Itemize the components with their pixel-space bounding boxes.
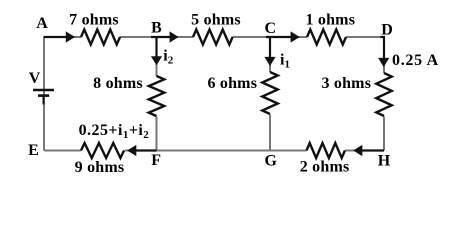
svg-text:9 ohms: 9 ohms — [75, 159, 125, 176]
battery V1 short plate — [38, 94, 49, 97]
value label 2 ohms — [300, 158, 350, 175]
node C label — [265, 20, 277, 37]
current arrow toward 9 ohms (left, at F) — [127, 145, 156, 156]
svg-text:7 ohms: 7 ohms — [69, 12, 119, 29]
svg-text:F: F — [151, 152, 161, 169]
resistor R6 3 ohms (vertical D-H) — [376, 73, 392, 116]
svg-text:i2: i2 — [163, 47, 173, 66]
battery V1 long plate — [33, 89, 54, 92]
value label 5 ohms — [191, 12, 241, 29]
svg-text:3 ohms: 3 ohms — [321, 75, 371, 92]
current label i1 — [280, 52, 290, 71]
svg-text:H: H — [378, 153, 391, 170]
resistor R3 1 ohms — [307, 30, 346, 45]
value label 8 ohms — [93, 75, 143, 92]
svg-text:2 ohms: 2 ohms — [300, 158, 350, 175]
wire bottom E-H — [44, 150, 384, 152]
resistor R5 6 ohms (vertical C-G) — [262, 72, 278, 114]
node G label — [264, 153, 277, 170]
node V label (source) — [29, 70, 41, 87]
svg-text:G: G — [264, 153, 277, 170]
value label 7 ohms — [69, 12, 119, 29]
svg-text:0.25+i1+i2: 0.25+i1+i2 — [79, 122, 150, 141]
svg-text:B: B — [151, 20, 162, 37]
node F label — [151, 152, 161, 169]
current arrow toward 2 ohms (left, at H) — [353, 145, 384, 156]
value label 1 ohms — [305, 12, 355, 29]
value label 9 ohms — [75, 159, 125, 176]
resistor R1 7 ohms — [81, 30, 120, 45]
svg-text:0.25 A: 0.25 A — [392, 52, 439, 69]
svg-text:6 ohms: 6 ohms — [207, 75, 257, 92]
node E label — [28, 142, 39, 159]
current arrow at node B (right) — [151, 31, 179, 42]
resistor R2 5 ohms — [193, 30, 233, 45]
svg-text:8 ohms: 8 ohms — [93, 75, 143, 92]
node A label — [36, 15, 48, 32]
wire top A-D — [44, 36, 384, 38]
current arrow at node C (right) — [266, 31, 300, 42]
svg-text:5 ohms: 5 ohms — [191, 12, 241, 29]
svg-text:C: C — [265, 20, 277, 37]
resistor R4 8 ohms (vertical B-F) — [149, 76, 165, 116]
svg-text:E: E — [28, 142, 39, 159]
wire right D-H — [383, 36, 385, 151]
node D label — [381, 22, 393, 39]
current arrow 0.25 A (down from D) — [378, 37, 389, 67]
svg-text:D: D — [381, 22, 393, 39]
current arrow at node A (right) — [44, 31, 75, 42]
value label 0.25 A — [392, 52, 439, 69]
value label 6 ohms — [207, 75, 257, 92]
current arrow i1 (down from C) — [264, 37, 275, 66]
node B label — [151, 20, 162, 37]
svg-text:i1: i1 — [280, 52, 290, 71]
battery V1 lead — [43, 96, 45, 105]
current label 0.25+i1+i2 — [79, 122, 150, 141]
svg-text:A: A — [36, 15, 48, 32]
current label i2 — [163, 47, 173, 66]
node H label — [378, 153, 391, 170]
svg-text:V: V — [29, 70, 41, 87]
current arrow i2 (down from B) — [151, 37, 162, 65]
svg-text:1 ohms: 1 ohms — [305, 12, 355, 29]
resistor R7 9 ohms (bottom E-F) — [81, 143, 124, 158]
value label 3 ohms — [321, 75, 371, 92]
wire left A-E — [43, 36, 45, 151]
wire branch B-F — [156, 37, 158, 151]
resistor R8 2 ohms (bottom G-H) — [307, 143, 345, 158]
wire branch C-G — [269, 37, 271, 152]
